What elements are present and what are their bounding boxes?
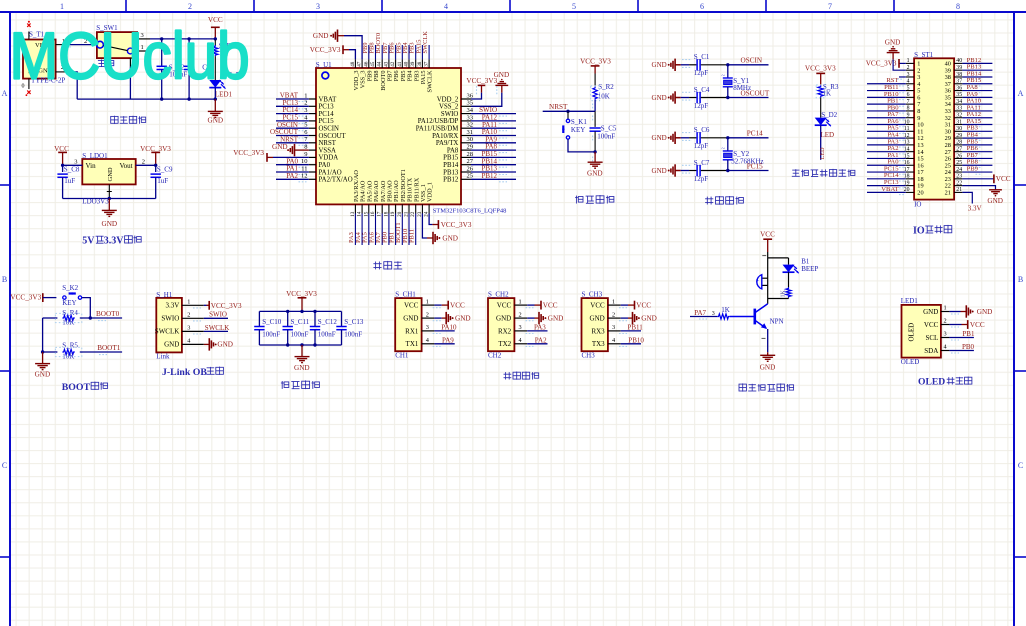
- svg-text:3.3V: 3.3V: [104, 236, 125, 247]
- LED S_D1: [209, 80, 221, 88]
- svg-text:PA0: PA0: [319, 162, 331, 169]
- svg-text:11: 11: [301, 165, 307, 172]
- svg-text:GND: GND: [217, 341, 233, 349]
- resistor S_R1 1K: [214, 38, 216, 41]
- svg-text:PA7: PA7: [694, 309, 706, 317]
- capacitor S_C7 12pF: [681, 170, 689, 172]
- svg-text:35: 35: [467, 100, 474, 107]
- wire net PB0 (OLED SDA): [949, 350, 974, 352]
- U1 top pin 38 (PA15): [421, 59, 423, 68]
- power port VCC_3V3 (U1 bottom): [437, 220, 439, 229]
- U1 top pin 39 (PB3): [415, 59, 417, 68]
- svg-text:S_ST1: S_ST1: [914, 51, 934, 59]
- U1 top pin 46 (PB9): [368, 59, 370, 68]
- wire net RST (ST1 left): [867, 83, 906, 85]
- svg-text:PB0: PB0: [962, 343, 975, 351]
- wire ST1 pin22 to GND: [962, 186, 995, 190]
- power port VCC_3V3 (U1 right top): [478, 84, 486, 86]
- svg-text:PA8: PA8: [447, 147, 459, 154]
- svg-text:PA2: PA2: [286, 172, 298, 180]
- title 声光报警电路: [739, 383, 746, 391]
- svg-text:GND: GND: [494, 71, 510, 79]
- U1 bottom pin 17 (PA7/AO): [381, 204, 383, 213]
- svg-text:8: 8: [304, 144, 307, 151]
- svg-text:GND: GND: [977, 308, 993, 316]
- U1 right pin 31 (PA10/RX): [461, 135, 471, 137]
- wire net PA10: [471, 135, 516, 137]
- ground GND (S_CH1): [445, 312, 447, 324]
- wire bottom rail: [77, 98, 215, 100]
- wire net PA15 (top): [421, 45, 423, 59]
- wire net PB10 (S_CH3): [621, 343, 641, 345]
- svg-text:PB12: PB12: [481, 172, 497, 180]
- svg-text:PB12: PB12: [443, 177, 459, 184]
- svg-text:2: 2: [907, 65, 910, 71]
- U1 bottom pin 24 (VDD_1): [428, 204, 430, 213]
- svg-text:4: 4: [444, 2, 448, 11]
- wire H1 pin1 to VCC_3V3: [204, 304, 207, 306]
- svg-text:8: 8: [956, 2, 960, 11]
- svg-text:KEY: KEY: [571, 126, 585, 134]
- svg-text:41: 41: [397, 61, 403, 67]
- U1 right pin 33 (PA12/USB/DP): [461, 120, 471, 122]
- wire LED to R (alarm): [788, 272, 790, 287]
- connector S_CH2: [488, 298, 514, 351]
- LED (alarm branch): [788, 258, 790, 265]
- connector S_ST1 IO header: [914, 58, 954, 199]
- svg-text:BOOT1: BOOT1: [97, 344, 121, 352]
- title 主芯片: [373, 262, 381, 270]
- U1 top pin 48 (VDD_3): [354, 59, 356, 68]
- wire net SWCLK (top): [428, 45, 430, 59]
- U1 right pin 28 (PB15): [461, 156, 471, 158]
- U1 left pin 8 (VSSA): [309, 149, 316, 151]
- wire net PB9 (ST1 right): [962, 171, 992, 173]
- svg-text:GND: GND: [923, 308, 938, 316]
- resistor S_R3 1K: [818, 85, 823, 97]
- svg-text:VDD_2: VDD_2: [437, 96, 459, 103]
- wire net PC14 (ST1 left): [867, 178, 906, 180]
- svg-text:GND: GND: [455, 315, 471, 323]
- svg-text:39: 39: [410, 61, 416, 67]
- junction filter top: [313, 310, 316, 313]
- svg-text:GND: GND: [164, 341, 179, 349]
- SW1 bottom pin stub down: [129, 58, 131, 67]
- svg-text:6: 6: [700, 2, 704, 11]
- sheet border frame: [0, 11, 1026, 13]
- svg-text:PA12/USB/DP: PA12/USB/DP: [418, 118, 459, 125]
- svg-text:S_C10: S_C10: [262, 318, 282, 326]
- svg-text:PA1/AO: PA1/AO: [319, 169, 342, 176]
- T1 bottom pin 0 stub with no-ERC marker: [28, 79, 30, 89]
- U1 right pin 34 (SWIO): [461, 113, 471, 115]
- ground GND (alarm): [767, 352, 769, 355]
- svg-text:KEY: KEY: [62, 299, 76, 307]
- svg-text:IO: IO: [913, 225, 925, 236]
- capacitor S_C11 100nF: [287, 311, 289, 326]
- svg-text:40: 40: [956, 58, 962, 64]
- svg-text:GND: GND: [272, 143, 288, 151]
- key S_K1: [567, 111, 569, 119]
- svg-text:20: 20: [917, 190, 923, 197]
- wire ST1 pin21 to 3.3V: [962, 192, 972, 203]
- wire S_CH3 VCC: [621, 304, 628, 306]
- svg-text:STM32F103C8T6_LQFP48: STM32F103C8T6_LQFP48: [433, 207, 507, 214]
- svg-text:12pF: 12pF: [694, 175, 709, 183]
- ground GND (power block): [214, 99, 216, 111]
- U1 right pin 36 (VDD_2): [461, 98, 471, 100]
- ground GND (S_CH3): [632, 312, 634, 324]
- svg-text:GND: GND: [102, 220, 118, 228]
- svg-text:22: 22: [956, 180, 962, 186]
- svg-text:S_C7: S_C7: [694, 159, 710, 167]
- ground GND (ST1 top): [887, 52, 900, 54]
- wire net PB8 (ST1 right): [962, 164, 992, 166]
- svg-text:PA2: PA2: [535, 336, 547, 344]
- svg-text:SWCLK: SWCLK: [427, 70, 434, 92]
- svg-text:29: 29: [956, 133, 962, 139]
- junction S_C2 bottom: [160, 97, 163, 100]
- wire net NRST: [543, 110, 595, 112]
- svg-text:TX1: TX1: [406, 340, 419, 348]
- svg-text:BOOT: BOOT: [62, 382, 91, 393]
- svg-text:LED: LED: [819, 147, 826, 160]
- wire net NRST: [276, 142, 309, 144]
- ground GND (U1 bottom): [432, 232, 434, 244]
- svg-text:3: 3: [712, 311, 715, 317]
- svg-text:VCC: VCC: [450, 302, 465, 310]
- svg-text:NRST: NRST: [319, 140, 337, 147]
- svg-text:PA9: PA9: [442, 336, 454, 344]
- svg-text:B: B: [1018, 275, 1023, 284]
- svg-text:BEEP: BEEP: [801, 265, 818, 273]
- svg-text:PA2/TX/AO: PA2/TX/AO: [319, 177, 353, 184]
- connector S_CH3: [582, 298, 608, 351]
- wire net PA10 (S_CH1): [434, 330, 454, 332]
- wire net PA1 (ST1 left): [867, 157, 906, 159]
- wire net PA12 (ST1 right): [962, 117, 992, 119]
- title 复位电路: [575, 196, 583, 204]
- U1 right pin 35 (VSS_2): [461, 105, 471, 107]
- U1 left pin 9 (VDDA): [309, 156, 316, 158]
- wire alarm top rail: [768, 257, 789, 259]
- wire S_CH3 GND: [621, 317, 628, 319]
- svg-text:PB9: PB9: [967, 165, 979, 172]
- border zone ticks left: [0, 184, 10, 186]
- svg-text:A: A: [1018, 89, 1024, 98]
- U1 left pin 12 (PA2/TX/AO): [309, 178, 316, 180]
- crystal S_Y2 32.768KHz: [727, 138, 729, 151]
- svg-text:RX1: RX1: [405, 327, 419, 335]
- capacitor S_C6 12pF: [681, 137, 689, 139]
- LDO pin 3 wire from VCC: [63, 164, 83, 166]
- svg-text:44: 44: [377, 61, 383, 67]
- svg-text:100nF: 100nF: [344, 331, 362, 339]
- wire net OSCOUT: [728, 97, 769, 99]
- U1 left pin 6 (OSCOUT): [309, 135, 316, 137]
- U1 top pin 41 (PB5): [401, 59, 403, 68]
- svg-text:GND: GND: [641, 315, 657, 323]
- svg-text:12: 12: [301, 173, 308, 180]
- svg-text:S_C1: S_C1: [694, 53, 710, 61]
- wire U1 VDD_1 to VCC_3V3 (bottom): [429, 214, 432, 225]
- svg-text:3.3V: 3.3V: [968, 205, 982, 213]
- svg-text:S_C6: S_C6: [694, 126, 710, 134]
- wire U1 VSS_2 to GND: [471, 93, 502, 107]
- svg-text:Link: Link: [156, 352, 170, 360]
- svg-text:PC13: PC13: [319, 104, 335, 111]
- U1 bottom pin 23 (VSS_1): [421, 204, 423, 213]
- wire net PB7 (ST1 right): [962, 157, 992, 159]
- wire S_CH2 GND: [527, 317, 534, 319]
- capacitor S_C4 12pF: [681, 97, 689, 99]
- junction C3 top: [187, 37, 190, 40]
- wire net PA4 (bottom): [361, 214, 363, 246]
- wire ST1 pin2 to GND: [893, 59, 906, 70]
- U1 right pin 32 (PA11/USB/DM): [461, 127, 471, 129]
- svg-text:OSCIN: OSCIN: [741, 57, 763, 65]
- op-amp U1 main chip S_U1 STM32F103C8T6: [316, 68, 461, 204]
- wire net PB8 (top): [375, 45, 377, 59]
- wire net VBAT (ST1 left): [867, 191, 906, 193]
- svg-text:31: 31: [467, 129, 474, 136]
- svg-text:VCC: VCC: [970, 321, 985, 329]
- svg-text:1: 1: [426, 298, 429, 305]
- capacitor S_C1 12pF: [681, 64, 689, 66]
- svg-text:21: 21: [956, 187, 962, 193]
- title 程序运行指示灯: [792, 169, 800, 176]
- wire net PA7 (ST1 left): [867, 117, 906, 119]
- svg-text:1uF: 1uF: [64, 177, 75, 185]
- U1 left pin 5 (OSCIN): [309, 127, 316, 129]
- U1 bottom pin 22 (PB11/RX): [415, 204, 417, 213]
- svg-text:45: 45: [370, 61, 376, 67]
- wire S_CH1 GND: [434, 317, 441, 319]
- wire net BOOT0: [80, 317, 122, 319]
- svg-text:23: 23: [956, 174, 962, 180]
- svg-text:3.3V: 3.3V: [165, 302, 179, 310]
- wire ST1 pin23 to VCC: [962, 178, 994, 180]
- svg-text:GND: GND: [885, 38, 901, 46]
- wire net PB9 (top): [368, 45, 370, 59]
- wire net PA5 (ST1 left): [867, 130, 906, 132]
- wire net PA1: [276, 171, 309, 173]
- wire U1 VDD_3 to VCC_3V3 (top left): [349, 50, 355, 60]
- resistor S_R4 10K: [43, 317, 58, 319]
- svg-text:6: 6: [907, 92, 910, 98]
- U1 bottom pin 18 (PB0/AO): [388, 204, 390, 213]
- svg-text:3: 3: [944, 331, 947, 338]
- svg-text:33: 33: [956, 106, 962, 112]
- U1 top pin 40 (PB4): [408, 59, 410, 68]
- wire net PA11 (ST1 right): [962, 110, 992, 112]
- wire net PB5 (top): [401, 45, 403, 59]
- svg-text:37: 37: [424, 61, 430, 67]
- ground GND (BOOT): [42, 352, 44, 364]
- U1 bottom pin 15 (PA5/AO): [368, 204, 370, 213]
- svg-text:PA9/TX: PA9/TX: [436, 140, 459, 147]
- crystal S_Y1 8MHz: [727, 65, 729, 78]
- wire net PA6 (ST1 left): [867, 124, 906, 126]
- wire net PA8: [471, 149, 516, 151]
- svg-text:C: C: [2, 461, 7, 470]
- wire net PA0 (ST1 left): [867, 164, 906, 166]
- svg-text:NRST: NRST: [549, 103, 568, 111]
- U1 right pin 25 (PB12): [461, 178, 471, 180]
- svg-text:2: 2: [519, 311, 522, 318]
- wire top rail from SW1 pin3 to VCC stem: [150, 38, 215, 40]
- svg-text:GND: GND: [208, 116, 224, 124]
- wire net PC14: [728, 137, 769, 139]
- svg-text:VBAT: VBAT: [319, 96, 338, 103]
- junction filter bottom: [286, 343, 289, 346]
- svg-text:VCC: VCC: [760, 231, 775, 239]
- junction filter bottom: [313, 343, 316, 346]
- svg-text:GND: GND: [496, 315, 511, 323]
- ground GND (U1 right top): [495, 84, 508, 86]
- wire net PB1 (OLED SCL): [949, 337, 974, 339]
- svg-text:38: 38: [956, 72, 962, 78]
- svg-text:LED1: LED1: [901, 297, 919, 305]
- svg-text:RX2: RX2: [498, 327, 512, 335]
- svg-text:GND: GND: [403, 315, 418, 323]
- wire net PC15: [728, 170, 769, 172]
- wire S_CH2 VCC: [527, 304, 534, 306]
- wire LED1 pin2 to VCC: [949, 324, 961, 326]
- connector S_T1 TYPE-C-2P: [23, 40, 56, 79]
- U1 bottom pin 21 (PB10/TX): [408, 204, 410, 213]
- wire net PA4 (ST1 left): [867, 137, 906, 139]
- U1 top pin 45 (PB8): [375, 59, 377, 68]
- U1 bottom pin 14 (PA4/AO): [361, 204, 363, 213]
- svg-text:29: 29: [467, 144, 474, 151]
- svg-text:C: C: [1018, 461, 1023, 470]
- wire alarm bottom rail: [768, 298, 789, 300]
- svg-text:30: 30: [467, 136, 474, 143]
- svg-text:SWIO: SWIO: [161, 315, 179, 323]
- power port VCC_3V3 (U1 top): [342, 45, 344, 54]
- svg-text:48: 48: [350, 61, 356, 67]
- svg-text:1: 1: [519, 298, 522, 305]
- power port VCC_3V3 at U1 pin 9 VDDA: [273, 156, 309, 158]
- svg-text:CH2: CH2: [488, 352, 502, 360]
- resistor S_R5 10K: [43, 351, 58, 353]
- wire net PB4 (top): [408, 45, 410, 59]
- T1 top pin stub with no-ERC marker: [28, 32, 30, 40]
- svg-text:PA11/USB/DM: PA11/USB/DM: [416, 126, 459, 133]
- svg-text:30: 30: [956, 126, 962, 132]
- svg-text:A: A: [2, 89, 8, 98]
- wire net PB1 (bottom): [395, 214, 397, 246]
- svg-text:S_C12: S_C12: [318, 318, 338, 326]
- svg-text:21: 21: [945, 190, 951, 197]
- svg-text:SWIO: SWIO: [441, 111, 458, 118]
- svg-text:3: 3: [426, 324, 429, 331]
- svg-text:PC14: PC14: [319, 111, 335, 118]
- wire net PC15 (ST1 left): [867, 171, 906, 173]
- wire net PA7 (bottom): [381, 214, 383, 246]
- wire net PA2: [276, 178, 309, 180]
- regulator S_LDO1: [82, 159, 135, 184]
- svg-text:PB14: PB14: [443, 162, 459, 169]
- svg-text:PA10/RX: PA10/RX: [432, 133, 458, 140]
- svg-text:5: 5: [907, 85, 910, 91]
- U1 left pin 2 (PC13): [309, 105, 316, 107]
- U1 left pin 4 (PC15): [309, 120, 316, 122]
- wire net OSCOUT: [276, 135, 309, 137]
- capacitor S_C5 100nF: [594, 111, 596, 127]
- wire net PC14: [276, 113, 309, 115]
- SW1 pin 1 stub with no-ERC cross: [137, 50, 150, 52]
- wire net PB13: [471, 171, 516, 173]
- wire net PB4 (ST1 right): [962, 137, 992, 139]
- U1 right pin 30 (PA9/TX): [461, 142, 471, 144]
- svg-text:VCC_3V3: VCC_3V3: [310, 46, 341, 54]
- svg-text:100nF: 100nF: [318, 331, 336, 339]
- svg-text:S_CH1: S_CH1: [395, 290, 416, 298]
- U1 left pin 3 (PC14): [309, 113, 316, 115]
- resistor 1K (alarm branch): [786, 287, 791, 297]
- svg-text:28: 28: [956, 140, 962, 146]
- wire net PC13: [276, 105, 309, 107]
- resistor 1K (base): [717, 314, 729, 319]
- title 滤波电路: [281, 381, 289, 389]
- wire net PA5 (bottom): [368, 214, 370, 246]
- svg-text:1K: 1K: [721, 306, 730, 314]
- wire net PB3 (top): [415, 45, 417, 59]
- title 电源电路: [111, 116, 118, 124]
- filter top rail: [259, 310, 341, 312]
- svg-text:2: 2: [188, 2, 192, 11]
- svg-text:VCC: VCC: [924, 321, 939, 329]
- svg-text:32.768KHz: 32.768KHz: [731, 158, 763, 166]
- svg-text:VCC_3V3: VCC_3V3: [805, 65, 836, 73]
- svg-text:OSCOUT: OSCOUT: [319, 133, 347, 140]
- svg-text:SDA: SDA: [924, 347, 938, 355]
- svg-text:S_R2: S_R2: [598, 83, 614, 91]
- svg-text:37: 37: [956, 79, 962, 85]
- svg-text:GND: GND: [590, 315, 605, 323]
- svg-text:B: B: [2, 275, 7, 284]
- svg-text:GND: GND: [760, 364, 776, 372]
- svg-text:GND: GND: [652, 94, 667, 102]
- wire net PB10 (ST1 left): [867, 96, 906, 98]
- title 晶振电路: [705, 197, 713, 205]
- wire net PB3 (ST1 right): [962, 130, 992, 132]
- svg-text:100nF: 100nF: [262, 331, 280, 339]
- svg-text:35: 35: [956, 92, 962, 98]
- wire net PA3 (S_CH2): [527, 330, 547, 332]
- svg-text:12pF: 12pF: [694, 102, 709, 110]
- svg-text:VCC_3V3: VCC_3V3: [441, 221, 472, 229]
- wire net PB6 (top): [395, 45, 397, 59]
- ground GND (H1): [208, 338, 210, 350]
- svg-text:100nF: 100nF: [597, 132, 615, 140]
- svg-text:1: 1: [612, 298, 615, 305]
- svg-text:CH3: CH3: [582, 352, 596, 360]
- svg-text:S_K2: S_K2: [62, 284, 78, 292]
- svg-text:12pF: 12pF: [694, 69, 709, 77]
- wire R3 to D2: [820, 97, 822, 117]
- svg-text:PB1: PB1: [962, 330, 975, 338]
- svg-text:GND: GND: [652, 167, 667, 175]
- svg-text:3: 3: [519, 324, 522, 331]
- svg-text:SWCLK: SWCLK: [205, 324, 230, 332]
- svg-text:VCC_3V3: VCC_3V3: [580, 57, 611, 65]
- svg-text:VDDA: VDDA: [319, 155, 339, 162]
- resistor S_R2 10K: [593, 87, 597, 100]
- wire net OSCIN: [728, 64, 769, 66]
